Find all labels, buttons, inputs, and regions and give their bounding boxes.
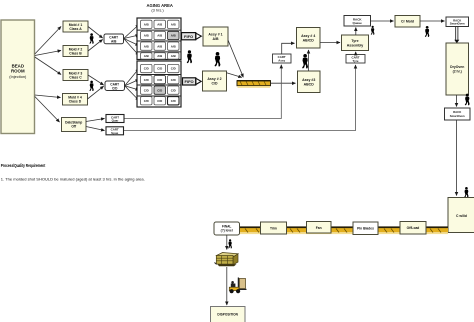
RACK SmartOven box 2	[445, 108, 471, 120]
aging rack container 2 (C/D)	[137, 61, 181, 107]
RACK Queue box	[344, 16, 371, 27]
wire assy2 to conveyor	[227, 73, 242, 78]
FINAL box	[214, 222, 240, 235]
person right of assy2	[214, 52, 220, 67]
svg-text:C/D: C/D	[144, 78, 149, 82]
wire cr mold to rack oven	[420, 20, 445, 22]
wire fan from BEAD room to molds	[35, 27, 61, 123]
svg-text:(?) level: (?) level	[221, 229, 233, 233]
wire assy3 to assy4	[308, 50, 310, 71]
svg-text:A/B: A/B	[144, 44, 149, 48]
wires cart A/B to aging rows	[124, 25, 139, 56]
CART Tyre box	[346, 55, 365, 64]
svg-text:SmartOven: SmartOven	[450, 22, 465, 26]
svg-text:A/B: A/B	[171, 23, 176, 27]
person right of cr mold	[425, 26, 430, 37]
Cooling box C w/lid	[448, 198, 474, 233]
svg-text:1. The molded shot SHOULD be: 1. The molded shot SHOULD be matured (ag…	[1, 177, 145, 182]
shelf lines rack 2	[138, 75, 181, 97]
svg-text:Assy: Assy	[278, 59, 285, 63]
wire final box down to pallet	[226, 235, 228, 250]
person below final box	[228, 239, 232, 248]
svg-text:Trim: Trim	[270, 227, 277, 231]
wire cart tyre to tyre assembly	[355, 52, 357, 55]
svg-text:Pin Blades: Pin Blades	[357, 227, 374, 231]
person worker at cart C/D	[89, 81, 93, 92]
svg-text:Fan: Fan	[316, 226, 322, 230]
svg-text:A/B: A/B	[144, 54, 149, 58]
CART Spue box	[106, 127, 124, 135]
RACK SmartOven box (top right)	[446, 17, 469, 27]
svg-text:Class C: Class C	[69, 76, 82, 80]
svg-text:A/B: A/B	[171, 34, 176, 38]
forklift icon	[229, 278, 246, 294]
Trim box	[261, 222, 287, 234]
svg-text:C/D: C/D	[171, 88, 176, 92]
DateStamp box	[62, 118, 87, 132]
svg-text:ABCD: ABCD	[304, 82, 315, 86]
person below rack 1	[187, 50, 192, 63]
svg-text:Assy # 2: Assy # 2	[207, 77, 221, 81]
wire conveyor to assy3	[271, 82, 296, 84]
svg-text:Assembly: Assembly	[347, 43, 364, 47]
mold M1 box	[63, 21, 88, 32]
CART Quar box	[106, 115, 124, 123]
svg-text:Spue: Spue	[111, 131, 118, 135]
svg-text:C/D: C/D	[211, 82, 218, 86]
svg-text:Class D: Class D	[69, 100, 82, 104]
svg-text:A/B: A/B	[157, 44, 162, 48]
conveyor belt icon (middle)	[237, 80, 271, 88]
wires molds to carts	[86, 27, 105, 131]
svg-text:Tyre: Tyre	[351, 39, 358, 43]
svg-text:C/D: C/D	[171, 99, 176, 103]
wire assy4 to tyre assembly	[320, 42, 340, 44]
svg-text:DryOven: DryOven	[450, 65, 464, 69]
svg-text:A/B: A/B	[144, 34, 149, 38]
wire dryoven to rack2	[456, 95, 458, 107]
CART C/D box	[105, 81, 125, 91]
svg-text:C/D: C/D	[157, 99, 162, 103]
Cr Mold box	[395, 16, 420, 28]
mold M3 box	[63, 70, 88, 81]
svg-text:ROOM: ROOM	[11, 69, 25, 74]
svg-text:C/D: C/D	[112, 86, 118, 90]
Pin Blades box	[353, 222, 378, 235]
wire tyre assembly to rack queue	[355, 28, 357, 36]
svg-text:C/D: C/D	[157, 67, 162, 71]
svg-text:Class B: Class B	[69, 52, 82, 56]
svg-text:Assy # 1: Assy # 1	[208, 33, 222, 37]
aging cells C/D	[141, 64, 180, 105]
wire rack queue to cr mold	[371, 20, 394, 22]
wire assy1 to conveyor	[228, 40, 243, 77]
Assy #1 A/B box	[203, 27, 228, 46]
svg-text:C w/lid: C w/lid	[456, 214, 467, 218]
bottom conveyor band	[240, 226, 449, 234]
wire pallet down to disposition	[226, 267, 228, 305]
svg-text:A/B: A/B	[157, 54, 162, 58]
Fan box	[307, 222, 332, 234]
svg-text:C/D: C/D	[144, 67, 149, 71]
Assy #3 ABCD box	[298, 71, 321, 93]
svg-text:(Injection): (Injection)	[9, 74, 27, 79]
svg-text:AB/CD: AB/CD	[303, 38, 315, 42]
svg-text:OffLoad: OffLoad	[407, 226, 420, 230]
person right of rack queue	[371, 26, 375, 35]
wire rack2 to cooling box	[456, 120, 458, 196]
svg-text:Queue: Queue	[353, 21, 363, 25]
svg-text:DISPOSITION: DISPOSITION	[217, 312, 238, 316]
person right of dryoven outlet	[465, 94, 470, 106]
svg-text:A/B: A/B	[157, 34, 162, 38]
shelf lines rack 1	[138, 30, 181, 52]
aging rack container 1 (A/B)	[137, 18, 181, 60]
person above cooling box	[464, 187, 468, 198]
svg-text:Process/Quality Requirement: Process/Quality Requirement	[1, 163, 46, 168]
svg-text:Class A: Class A	[69, 27, 82, 31]
wires cart C/D to aging rows	[125, 69, 139, 101]
Offload box	[400, 222, 426, 235]
svg-text:(3 hrs.): (3 hrs.)	[151, 7, 164, 12]
svg-text:C/D: C/D	[171, 78, 176, 82]
mold M4 box	[63, 94, 88, 106]
wire cart spue to cart tyre (long)	[124, 65, 356, 131]
svg-text:A/B: A/B	[157, 23, 162, 27]
Tyre Assembly box	[342, 35, 369, 51]
svg-text:Quar: Quar	[112, 119, 120, 123]
svg-text:(2 hr.): (2 hr.)	[453, 70, 462, 74]
wire cart assy to assy4	[282, 43, 295, 54]
svg-text:Assy #3: Assy #3	[302, 78, 315, 82]
svg-text:A/B: A/B	[171, 44, 176, 48]
svg-text:C/D: C/D	[157, 88, 162, 92]
FIFO badge 2	[183, 78, 202, 85]
pallet crate icon	[215, 253, 239, 267]
svg-text:A/B: A/B	[144, 23, 149, 27]
svg-text:FIFO: FIFO	[184, 34, 193, 39]
svg-text:Assy # 4: Assy # 4	[301, 34, 315, 38]
BEAD ROOM box	[1, 20, 35, 134]
Assy #4 AB/CD box	[297, 28, 321, 49]
svg-text:C/D: C/D	[144, 88, 149, 92]
double-line arrow into dry oven	[454, 27, 459, 43]
person at assy3/assy4	[302, 54, 308, 69]
mold M2 box	[63, 46, 88, 57]
DISPOSITION box	[211, 307, 246, 322]
svg-text:A/B: A/B	[111, 39, 117, 43]
svg-text:SmartOven: SmartOven	[450, 114, 465, 118]
CART A/B box	[104, 34, 124, 44]
svg-text:C/D: C/D	[157, 78, 162, 82]
FIFO badge 1	[182, 33, 202, 40]
svg-text:A/B: A/B	[212, 37, 219, 41]
Assy #2 C/D box	[203, 71, 227, 91]
wire cart quar to cart assy (long)	[124, 65, 281, 119]
svg-text:C/D: C/D	[171, 67, 176, 71]
svg-text:FIFO: FIFO	[185, 79, 194, 84]
svg-text:Tyre: Tyre	[353, 59, 359, 63]
aging cells A/B	[141, 20, 180, 59]
AGING AREA title	[146, 3, 173, 12]
DryOven box	[446, 43, 469, 95]
svg-text:A/B: A/B	[171, 54, 176, 58]
CART Assy box	[273, 54, 292, 63]
svg-text:Cr Mold: Cr Mold	[401, 20, 414, 24]
svg-text:C/D: C/D	[144, 99, 149, 103]
person worker at cart A/B	[89, 33, 93, 44]
